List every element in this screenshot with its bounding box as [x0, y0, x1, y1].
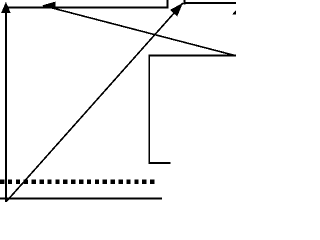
right riser (vertical step from top edge) [183, 0, 185, 5]
arrow B head (pointing left) [42, 2, 56, 10]
top-left horizontal line [5, 7, 168, 9]
bracket foot [148, 162, 170, 164]
arrow C head (pointing up-right) [170, 3, 183, 17]
left riser (vertical step up to top edge) [167, 0, 169, 9]
y-axis line [5, 10, 7, 202]
x-axis (bottom horizontal line) [0, 198, 162, 200]
top-right horizontal line [184, 2, 236, 4]
diagonal arrow C tail (from origin up to top arrowhead) [7, 3, 183, 201]
letter fragment at top right edge [232, 10, 236, 14]
diagonal arrow B tail (from lower right up to left arrowhead) [43, 6, 235, 56]
bracket top horizontal [148, 55, 236, 57]
bracket vertical [148, 56, 150, 164]
y-axis arrowhead [1, 2, 10, 13]
dotted horizontal line [0, 180, 154, 185]
